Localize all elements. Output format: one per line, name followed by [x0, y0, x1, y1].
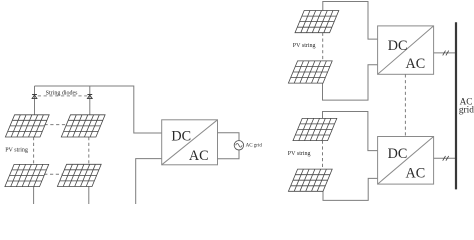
PV panel B2 (right bottom string, module n)	[288, 169, 332, 191]
symbol: three-phase slashes on U3 output	[443, 156, 449, 161]
node: AC grid bus bar	[455, 22, 457, 189]
svg-text:PV string: PV string	[293, 43, 316, 49]
op-box U1: central DC/AC inverter	[162, 120, 218, 165]
PV panel P2 (left string, row 1 col 2)	[61, 115, 105, 137]
op-box U3: bottom string DC/AC inverter	[378, 137, 434, 185]
diode D1 (string diode, left)	[32, 95, 37, 99]
wire: left lower return to inverter	[136, 159, 162, 204]
wire: dashed series link B1-B2	[322, 141, 324, 170]
svg-text:AC: AC	[406, 56, 426, 72]
PV panel A1 (right top string, module 1)	[295, 11, 339, 33]
AC source G1: grid symbol circle	[234, 141, 243, 150]
wire: dashed leader line for string diodes label	[38, 95, 87, 97]
svg-text:PV string: PV string	[288, 151, 311, 157]
svg-text:AC: AC	[189, 148, 209, 164]
wire: P4 bottom lead	[88, 187, 90, 205]
wire: A-string top feed to inverter U2	[323, 2, 378, 40]
PV panel P3 (left string, row 2 col 1)	[5, 164, 49, 186]
wire: U3 output to AC bus	[434, 157, 456, 159]
svg-text:PV string: PV string	[5, 147, 28, 153]
svg-text:DC: DC	[388, 146, 408, 162]
PV panel A2 (right top string, module n)	[288, 61, 332, 83]
PV panel P1 (left string, row 1 col 1)	[5, 115, 49, 137]
wire: dashed series link A1-A2	[322, 33, 324, 61]
PV panel B1 (right bottom string, module 1)	[293, 118, 337, 140]
wire: A-string bottom return to inverter U2	[323, 65, 378, 100]
wire: dashed series link P2-P4	[88, 137, 90, 164]
wire: dashed series link P1-P2	[45, 124, 67, 126]
wire: left string 2 diode drop	[89, 86, 91, 115]
wire: U1 AC output top	[218, 133, 240, 141]
svg-text:grid: grid	[459, 106, 474, 116]
wire: dashed continuation between string inverters	[404, 74, 406, 136]
PV panel P4 (left string, row 2 col 2)	[57, 164, 101, 186]
svg-text:AC grid: AC grid	[246, 143, 263, 148]
symbol: three-phase slashes on U2 output	[443, 51, 449, 56]
wire: U1 AC output bottom	[218, 150, 240, 159]
wire: dashed series link P1-P3	[33, 137, 35, 164]
svg-text:String diodes: String diodes	[46, 90, 78, 96]
diode D2 (string diode, right)	[87, 95, 92, 99]
wire: P3 bottom lead	[33, 187, 35, 204]
svg-text:DC: DC	[388, 38, 408, 54]
wire: dashed series link P3-P4	[44, 173, 62, 175]
wire: B-string bottom return to inverter U3	[323, 178, 378, 200]
wire: B-string top feed to inverter U3	[323, 112, 378, 151]
wire: U2 output to AC bus	[434, 52, 456, 54]
svg-text:DC: DC	[171, 129, 191, 145]
op-box U2: top string DC/AC inverter	[378, 26, 434, 74]
wire: left string 1 diode drop	[34, 86, 36, 115]
svg-text:AC: AC	[406, 166, 426, 182]
wire: left top bus from string diodes to inverter	[35, 86, 162, 133]
